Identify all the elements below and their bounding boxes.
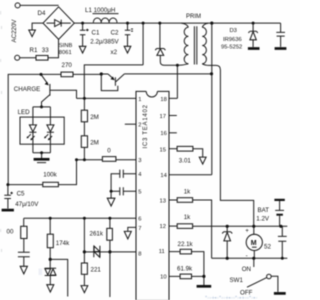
node primary bottom junction [176, 64, 179, 67]
label 2M a [90, 114, 99, 121]
capacitor pin4 [111, 170, 136, 192]
wire 2M to pin3 node [83, 147, 85, 159]
label 1k pin13 [184, 189, 191, 196]
node motor top [252, 225, 255, 228]
svg-text:174k: 174k [56, 240, 70, 247]
svg-text:IR9636: IR9636 [223, 37, 242, 43]
svg-text:47μ/10V: 47μ/10V [15, 201, 39, 208]
wire T1 to bridge top [20, 4, 58, 6]
capacitor motor [278, 226, 287, 258]
transistor Q1 [41, 74, 77, 107]
svg-text:PRIM: PRIM [186, 14, 201, 20]
node pin10 ground [202, 275, 205, 278]
pin 10 [160, 275, 166, 281]
resistor 261k [107, 218, 113, 240]
label 0 [107, 148, 111, 155]
svg-text:17: 17 [160, 114, 166, 120]
node diac2 left [83, 250, 86, 253]
svg-text:10: 10 [160, 275, 166, 281]
capacitor C5 [4, 185, 13, 209]
diode D9 [222, 226, 232, 258]
wire pin18 riser [169, 65, 177, 98]
label D3 IR9636 95-5252 [221, 28, 242, 51]
node 261k top [108, 217, 111, 220]
switch SW1 [247, 258, 278, 292]
resistor 270 [61, 72, 73, 77]
wire vertical drop x143 [142, 23, 144, 65]
ground LED [34, 153, 50, 163]
open arrow 3.01 [199, 157, 206, 164]
transformer T1 PRIM [178, 23, 220, 70]
svg-text:CHARGE: CHARGE [14, 86, 40, 93]
node 174k bottom [49, 248, 52, 261]
capacitor C1 [80, 23, 89, 46]
wire pin6 run [24, 217, 136, 219]
pin 13 [160, 198, 166, 204]
label 61.9k [177, 266, 193, 273]
resistor 2M b [81, 136, 87, 148]
LED D5 [27, 117, 37, 153]
pin 2 stub [125, 123, 142, 129]
svg-text:0: 0 [107, 148, 111, 155]
AC terminal T2 [15, 55, 20, 60]
svg-text:D4: D4 [38, 10, 46, 17]
label 00 [7, 228, 14, 235]
wire output top [193, 225, 288, 227]
wire T2 to R1 [20, 57, 36, 59]
wire C5 node [6, 183, 42, 186]
resistor 61.9k pin10 [169, 274, 204, 279]
node pin8 junction [108, 250, 111, 253]
svg-text:C5: C5 [17, 191, 25, 198]
ground D3 [248, 47, 260, 50]
label 3.01 [179, 157, 192, 164]
bridge rectifier D4 [43, 7, 74, 40]
node 100k riser [75, 158, 78, 161]
open arrow 00 branch [20, 266, 27, 274]
label 100k [43, 171, 57, 178]
wire LED merge [33, 152, 51, 154]
svg-text:22.1k: 22.1k [178, 241, 194, 248]
label IC3 TEA1402 [143, 104, 149, 148]
svg-text:2.2μ/385V: 2.2μ/385V [90, 39, 119, 46]
node bottom motor [252, 257, 255, 260]
capacitor 00 branch [18, 239, 30, 267]
svg-text:12: 12 [160, 224, 166, 230]
LED box [20, 117, 64, 144]
svg-text:61.9k: 61.9k [177, 266, 193, 273]
svg-text:11: 11 [159, 249, 165, 255]
ground pins 10 11 [197, 276, 212, 286]
svg-text:3.01: 3.01 [179, 157, 192, 164]
wire between 2M [83, 122, 85, 136]
node snubber diode rail [158, 22, 161, 25]
svg-text:7: 7 [138, 226, 141, 232]
pin 7 [138, 226, 141, 232]
svg-text:100k: 100k [43, 171, 57, 178]
watermark [1, 11, 258, 300]
AC terminal T1 [15, 3, 20, 8]
open arrow diac [47, 285, 54, 292]
pin 6 [138, 217, 141, 223]
pin 17 stub [160, 114, 177, 120]
ground SW1 [274, 292, 286, 295]
wire 261k to pin8 node [109, 240, 111, 297]
node LED bottom [40, 151, 43, 154]
node rail secondary [210, 22, 213, 25]
snubber diode D2 [155, 23, 177, 65]
svg-text:1.2V: 1.2V [256, 216, 270, 223]
wire vertical v1 [211, 23, 213, 175]
capacitor C2 [125, 23, 133, 46]
wire output bottom [212, 257, 288, 259]
svg-text:1: 1 [138, 97, 141, 103]
node bottom cap [281, 257, 284, 260]
battery BAT [274, 200, 284, 226]
wire Q2 collector run [124, 73, 211, 75]
label 270 [62, 62, 73, 69]
wire pin3 run [77, 159, 137, 161]
svg-text:8061: 8061 [59, 50, 72, 56]
AC220V label [11, 19, 18, 43]
wire 100k riser [58, 160, 76, 185]
node battery bottom [279, 225, 282, 228]
label C5 47u/10V [15, 191, 39, 208]
svg-text:M: M [251, 240, 257, 247]
node LED top [40, 105, 43, 108]
node Q2 emitter [100, 72, 103, 75]
ground C6 [275, 47, 287, 50]
node Q1 emitter [40, 73, 43, 76]
node bottom diode [226, 257, 229, 260]
label SINB 8061 [59, 43, 73, 56]
wire left rail [8, 74, 61, 184]
svg-text:8: 8 [138, 251, 141, 257]
wire pin14 [169, 174, 212, 176]
label R1 33 [30, 47, 50, 54]
svg-text:2M: 2M [90, 139, 99, 146]
resistor 2M a [81, 110, 87, 122]
svg-text:L1 1000μH: L1 1000μH [85, 7, 115, 14]
svg-text:x2: x2 [111, 49, 118, 56]
wire pin13 down [193, 200, 212, 258]
resistor 1k pin12 [169, 224, 193, 229]
IC U1 TEA1402 body [136, 90, 169, 300]
wire 221 chain [83, 218, 85, 263]
svg-text:221: 221 [91, 267, 102, 274]
open arrow 221 [81, 274, 88, 292]
LED box wires [33, 107, 51, 117]
wire branch right down [50, 259, 67, 296]
label LED [18, 109, 31, 116]
open arrow pin7 [124, 231, 131, 239]
label 2M b [90, 139, 99, 146]
svg-text:52: 52 [264, 244, 271, 251]
svg-text:95-5252: 95-5252 [221, 45, 242, 51]
svg-text:261k: 261k [90, 230, 104, 237]
resistor 1k pin13 [169, 198, 193, 203]
svg-text:6: 6 [138, 217, 141, 223]
pin 4 [138, 172, 142, 178]
pin 11 [159, 249, 165, 255]
node pin1 junction [83, 97, 86, 100]
node pin5 cap [110, 190, 113, 193]
label CHARGE [14, 86, 40, 93]
label PRIM [186, 14, 201, 20]
capacitor C6 top right [276, 23, 285, 47]
node C2 junction [126, 22, 129, 25]
node pin3 chain [83, 158, 86, 161]
resistor 3.01 pin15 [169, 146, 203, 157]
label 1k pin12 [184, 214, 191, 221]
svg-text:LED: LED [18, 109, 31, 116]
main DC rail [74, 22, 280, 24]
pin 12 [160, 224, 166, 230]
node diode D9 top [226, 225, 229, 228]
open arrow below bridge left [29, 30, 36, 37]
label 174k [56, 240, 70, 247]
node 221 top [83, 217, 86, 220]
svg-text:1k: 1k [184, 189, 191, 196]
ground C5 [2, 209, 14, 212]
svg-text:270: 270 [62, 62, 73, 69]
wire pin1 run [77, 97, 137, 99]
svg-text:00: 00 [7, 228, 14, 235]
svg-text:D3: D3 [230, 28, 237, 34]
svg-text:3: 3 [138, 158, 141, 164]
label ON SW1 OFF [230, 266, 253, 296]
node rail D3 [252, 22, 255, 25]
open arrow pins45 [107, 191, 115, 206]
svg-text:2M: 2M [90, 114, 99, 121]
pin 8 [138, 251, 141, 257]
branch 00 resistor [23, 218, 25, 226]
resistor 174k [47, 218, 53, 247]
pin 18 [160, 97, 166, 103]
open arrow below C2 [124, 46, 131, 53]
pin 1 [138, 97, 141, 103]
label L1 1000uH [85, 7, 119, 14]
svg-text:AC220V: AC220V [11, 19, 18, 43]
pin 5 [138, 190, 141, 196]
svg-text:18: 18 [160, 97, 166, 103]
svg-text:33: 33 [42, 47, 49, 54]
resistor 22.1k pin11 [169, 249, 204, 276]
svg-text:BAT: BAT [258, 207, 270, 214]
svg-text:SINB: SINB [59, 43, 73, 49]
svg-text:R1: R1 [30, 47, 38, 54]
svg-text:IC3 TEA1402: IC3 TEA1402 [143, 104, 149, 148]
svg-text:13: 13 [160, 198, 166, 204]
label 22.1k [178, 241, 194, 248]
label BAT 1.2V [256, 207, 270, 223]
label 261k [90, 230, 104, 237]
wire pin7 stub [128, 227, 136, 231]
svg-text:ON: ON [242, 266, 251, 273]
svg-text:16: 16 [160, 131, 166, 137]
motor M [246, 226, 262, 258]
wire pin8 run [110, 251, 136, 253]
node v1 collector junction [210, 72, 213, 75]
svg-text:14: 14 [160, 173, 167, 179]
node 174k top [49, 217, 52, 220]
LED D6 [44, 117, 54, 153]
node rail to mid-rail drop [142, 22, 145, 25]
label motor plus minus 52 [245, 228, 271, 260]
svg-text:C2: C2 [111, 29, 119, 36]
pin 16 stub [160, 131, 176, 137]
wire to 2M [83, 98, 85, 110]
svg-text:+: + [245, 228, 249, 235]
resistor 221 [81, 263, 87, 274]
svg-text:C1: C1 [92, 29, 100, 36]
svg-text:15: 15 [160, 147, 166, 153]
transistor Q2 [101, 74, 124, 91]
wire bridge left vertex [32, 23, 43, 30]
diode D3 [248, 23, 257, 47]
resistor 00 [21, 226, 27, 238]
open arrow below C1 [79, 46, 86, 53]
node C1 junction [81, 22, 84, 25]
label 221 [91, 267, 102, 274]
pin 14 [160, 173, 167, 179]
wire mid horizontal y65 left [84, 65, 143, 99]
capacitor pin5 [111, 187, 136, 195]
diac D7 [45, 259, 56, 284]
wire R1 to bridge bottom [48, 39, 59, 57]
diac D8 [84, 246, 110, 258]
wire vertical v2 secondary return [220, 70, 253, 226]
wire 270 to Q2 [73, 73, 101, 75]
labels C1 C2 values [90, 29, 119, 56]
svg-text:2: 2 [138, 123, 141, 129]
pin 3 [138, 158, 141, 164]
label D4 [38, 10, 46, 17]
resistor 100k [43, 182, 59, 186]
pin 15 [160, 147, 166, 153]
svg-text:*◦▫+▪◦*▫◦+▪◦▫*◦▪+◦▫*◦▪◦: *◦▫+▪◦*▫◦+▪◦▫*◦▪+◦▫*◦▪◦ [205, 296, 258, 300]
svg-text:5: 5 [138, 190, 141, 196]
resistor 0 [102, 157, 116, 162]
resistor R1 33 [36, 56, 48, 61]
svg-text:SW1: SW1 [230, 277, 244, 284]
inductor L1 [93, 18, 117, 23]
svg-text:1k: 1k [184, 214, 191, 221]
